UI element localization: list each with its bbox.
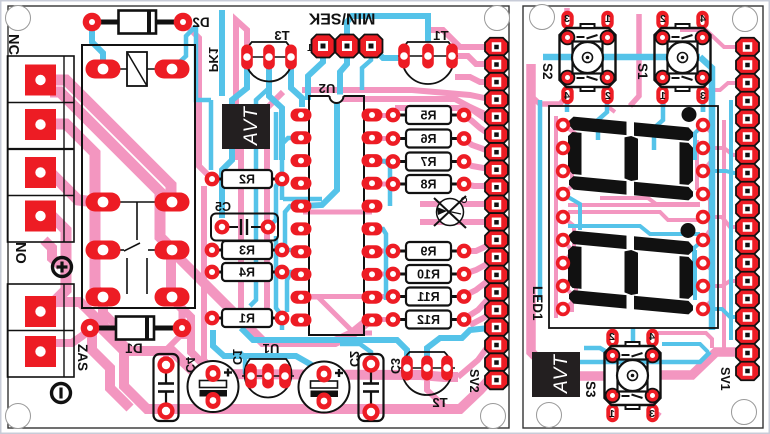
mounting hole	[732, 400, 757, 425]
display digit 1	[569, 117, 627, 136]
wire pink display web5	[563, 263, 576, 309]
wire pink C4 region	[166, 336, 190, 365]
wire pink sv1 stub top	[706, 83, 741, 90]
svg-text:AVT: AVT	[241, 106, 262, 146]
svg-text:R1: R1	[239, 312, 255, 326]
button S2	[561, 11, 573, 29]
wire blue channel vertical right	[729, 100, 733, 340]
mounting hole	[485, 6, 510, 31]
wire pink R10 to header	[464, 263, 489, 274]
svg-text:1: 1	[660, 90, 666, 102]
wire pink display left pads web2	[563, 148, 572, 194]
svg-text:R10: R10	[417, 268, 440, 282]
header SV2 pin 12	[485, 231, 508, 250]
svg-text:1: 1	[605, 13, 611, 25]
wire pink terminal2 to relay left col	[50, 124, 103, 297]
decimal point 2	[681, 223, 696, 238]
svg-text:C1: C1	[230, 349, 244, 365]
IC U2 pad right 15	[362, 222, 383, 235]
wire blue S1 right down	[701, 96, 706, 112]
wire blue right channel stub2	[703, 309, 741, 317]
wire pink S3 bottom stub	[652, 396, 660, 416]
wire pink under logo vertical B	[233, 60, 239, 160]
wire blue S2 bottom right down	[598, 96, 607, 140]
IC U2 pad right 18	[362, 154, 383, 167]
header SV2 pin 2	[485, 55, 508, 74]
wire blue through U2 from notch	[303, 102, 337, 206]
svg-text:D1: D1	[125, 341, 143, 356]
header SV2 pin 18	[485, 336, 508, 355]
svg-text:4: 4	[700, 13, 706, 25]
wire pink right channel vertical	[722, 120, 726, 356]
mounting hole	[733, 7, 758, 32]
wire blue display left web	[563, 194, 580, 230]
wire pink S1 to display	[660, 96, 666, 106]
wire pink below display	[658, 333, 712, 348]
header SV1 pin 8	[736, 164, 759, 183]
wire pink plus pad join	[61, 261, 66, 270]
svg-text:PK1: PK1	[206, 47, 221, 72]
IC U2 pad left 9	[291, 291, 312, 304]
logo AVT right board	[532, 352, 580, 397]
capacitor C4	[154, 354, 179, 421]
wire blue C5 to R2	[268, 179, 282, 227]
header SV2 pin 4	[485, 90, 508, 109]
wire pink header low2	[458, 345, 489, 377]
wire blue R3 to U2	[282, 250, 301, 252]
header SV1 pin 7	[736, 146, 759, 165]
wire pink S3 right to SV1	[661, 352, 741, 375]
svg-text:R5: R5	[420, 109, 436, 123]
relay coil symbol	[103, 68, 127, 70]
relay pad coil left	[86, 60, 121, 79]
wire blue display web r2	[694, 240, 703, 280]
resistor R2	[212, 178, 222, 181]
wire pink top right T1	[452, 56, 489, 64]
svg-text:4: 4	[649, 331, 655, 343]
wire blue U2 right stub1	[372, 161, 390, 206]
display pad left 8	[556, 279, 570, 293]
wire pink display left pads web1	[563, 125, 576, 171]
wire pink U2 to R6	[372, 136, 393, 141]
svg-text:R7: R7	[420, 155, 436, 169]
relay pad coil right	[155, 60, 190, 79]
wire pink R11 to header	[464, 280, 489, 296]
svg-text:R12: R12	[417, 313, 440, 327]
IC U2 pad left 10	[291, 314, 312, 327]
resistor R11	[393, 295, 406, 298]
logo AVT left board	[222, 104, 270, 149]
header SV1 pin 11	[736, 218, 759, 237]
wire pink relay right pads vertical	[166, 252, 176, 295]
IC U2 pad right 19	[362, 131, 383, 144]
wire blue channel left of U2	[276, 236, 282, 330]
svg-text:2: 2	[660, 13, 666, 25]
wire blue gap band	[568, 226, 700, 234]
display pad right 9	[696, 302, 710, 316]
wire pink R5 to header	[464, 115, 489, 134]
plus symbol	[53, 258, 72, 277]
IC U2 body	[309, 96, 364, 335]
terminal pad NO-2	[25, 201, 56, 232]
header SV2 pin 7	[485, 143, 508, 162]
wire pink terminal4 down left	[52, 216, 66, 304]
wire blue T2 left up long	[241, 328, 407, 368]
button S1	[656, 11, 668, 29]
resistor R3	[212, 249, 222, 252]
wire pink D1 pad right up	[171, 299, 182, 328]
display pad right 7	[696, 256, 710, 270]
wire pink channel vertical long	[204, 186, 213, 369]
svg-text:C3: C3	[388, 358, 402, 374]
wire pink relay nc down join	[103, 297, 118, 327]
wire pink top right corner	[425, 30, 489, 47]
wire pink relay contact to U2 pin	[171, 250, 368, 342]
header SV1 pin 1	[736, 38, 759, 57]
board outline right PCB	[523, 6, 763, 428]
wire pink top right corner	[680, 30, 741, 47]
display pad right 8	[696, 279, 710, 293]
wire pink stub sv1 c	[703, 281, 741, 286]
wire pink through U2 row11	[303, 294, 372, 299]
mounting hole	[6, 404, 31, 429]
diode D1	[90, 326, 182, 331]
wire blue T3 right down	[291, 68, 302, 107]
header SV1 pin 10	[736, 200, 759, 219]
header SV2 pin 10	[485, 196, 508, 215]
IC U2 pad right 17	[362, 177, 383, 190]
header SV1 pin 16	[736, 308, 759, 327]
wire blue R4 row	[282, 272, 301, 274]
header SV2 pin 1	[485, 38, 508, 57]
header SV2 pin 13	[485, 248, 508, 266]
capacitor C3	[359, 354, 384, 421]
wire blue jp1 pad1 down	[308, 46, 323, 100]
transistor T2 body	[402, 352, 452, 395]
wire pink display web6	[563, 286, 572, 312]
wire pink digits gap band2	[568, 212, 700, 220]
display pad left 1	[556, 118, 570, 132]
terminal pad ZAS-2	[25, 336, 56, 367]
wire blue channel x276	[274, 112, 279, 160]
relay PK1 outline	[82, 45, 195, 308]
wire pink C1 C2 bottom	[210, 400, 216, 409]
IC U2 pad right 11	[362, 314, 383, 327]
wire pink display inner vertical	[554, 116, 558, 318]
wire pink NC terminal diag A	[50, 80, 171, 199]
wire pink through U2 mid	[303, 210, 372, 215]
mounting hole	[530, 5, 555, 30]
display pad left 7	[556, 256, 570, 270]
wire pink relay rowB left spur	[95, 242, 103, 250]
relay pad nc left	[86, 288, 121, 307]
display pad right 4	[696, 187, 710, 201]
wire pink header mid2	[420, 219, 489, 225]
wire pink mid horizontals to header1	[455, 77, 489, 82]
resistor R5	[393, 114, 406, 117]
header SV1 pin 15	[736, 290, 759, 309]
capacitor C2 electrolytic	[299, 362, 350, 413]
header SV1 pin 12	[736, 236, 759, 255]
wire pink ZAS2 to D1	[50, 330, 90, 343]
IC U2 pad left 7	[291, 245, 312, 258]
header SV1 pin 9	[736, 182, 759, 201]
wire pink display left pads web4	[563, 240, 570, 286]
svg-text:SV1: SV1	[718, 367, 732, 391]
wire blue display web r1	[695, 125, 703, 160]
svg-text:NC: NC	[5, 34, 21, 55]
wire pink R8 to header	[464, 184, 489, 186]
wire pink bottom bundle to SV2	[400, 380, 489, 409]
header SV2 pin 20	[485, 371, 508, 390]
header SV1 pin 5	[736, 110, 759, 129]
wire blue drop S2a	[565, 96, 570, 112]
wire blue U2 left stub2	[285, 206, 301, 250]
wire pink T3 up	[236, 20, 247, 60]
wire blue channel right of relay	[196, 26, 211, 100]
wire pink U2 to R8	[372, 182, 393, 187]
header SV2 pin 19	[485, 353, 508, 372]
wire pink U2 to R5	[372, 113, 393, 118]
wire blue below display diag	[662, 344, 708, 352]
relay pad no left	[86, 241, 121, 260]
svg-text:3: 3	[700, 90, 706, 102]
wire pink ZAS terminal to bottom bundle	[50, 302, 400, 409]
display digit 2	[569, 231, 627, 250]
wire pink mid horizontals to header4	[395, 108, 487, 120]
wire pink S2 lower left diag	[531, 96, 567, 104]
terminal pad NC-2	[25, 109, 56, 140]
wire blue bottom left of U1	[240, 352, 245, 374]
svg-text:T2: T2	[432, 395, 447, 410]
wire pink R12 to header	[464, 298, 489, 319]
wire blue T2 mid	[427, 328, 489, 368]
resistor R9	[393, 250, 406, 253]
wire blue left channel vertical	[538, 100, 543, 300]
header JP1 pin 3	[360, 35, 383, 58]
wire pink U2 to R12	[372, 317, 393, 322]
display pad left 6	[556, 233, 570, 247]
IC U2 pad right 13	[362, 268, 383, 281]
svg-text:U1: U1	[263, 341, 280, 356]
wire pink R9 to header	[464, 245, 489, 251]
mounting hole	[6, 6, 31, 31]
decimal point 1	[682, 107, 697, 122]
wire blue drop S1a	[701, 96, 706, 112]
wire pink U2 to R10	[372, 272, 393, 277]
wire pink display right web1	[703, 125, 712, 171]
svg-text:S1: S1	[635, 63, 650, 80]
wire blue D2 left pad to relay coil	[92, 22, 103, 66]
svg-text:ZAS: ZAS	[75, 344, 90, 371]
wire blue jp1 pad3 to T1	[371, 46, 404, 58]
wire pink AVT to S3	[542, 363, 604, 376]
wire blue bottom horizontal	[580, 352, 710, 362]
svg-text:U2: U2	[319, 81, 336, 96]
relay pad com left	[86, 193, 121, 212]
mounting hole	[481, 404, 506, 429]
svg-text:2: 2	[605, 90, 611, 102]
board outline left PCB	[8, 6, 509, 428]
header SV2 pin 17	[485, 318, 508, 337]
wire pink header low1	[470, 315, 489, 325]
wire pink C2 bottom	[321, 400, 327, 409]
wire blue right inner web	[693, 250, 697, 300]
wire blue right channel stub1	[703, 171, 741, 173]
wire blue buttons row horizontal	[543, 54, 700, 61]
regulator U1 body	[244, 359, 291, 398]
wire pink terminal3 to relay com	[50, 172, 103, 202]
IC U2 pad left 8	[291, 268, 312, 281]
display pad right 1	[696, 118, 710, 132]
wire blue into U2 left	[283, 197, 322, 202]
header SV1 pin 4	[736, 92, 759, 111]
svg-text:R2: R2	[239, 173, 255, 187]
IC U2 pad right 14	[362, 245, 383, 258]
wire blue C1 top	[213, 330, 324, 373]
resistor R4	[212, 271, 222, 274]
svg-text:T1: T1	[433, 28, 448, 43]
IC U2 pad right 20	[362, 109, 383, 122]
wire pink stub sv1 b	[703, 217, 741, 227]
svg-text:3: 3	[649, 408, 655, 420]
wire pink left edge vertical	[531, 64, 542, 363]
header SV2 pin 6	[485, 125, 508, 143]
header SV2 pin 11	[485, 213, 508, 232]
wire pink mid bundle B	[103, 297, 458, 377]
svg-text:2: 2	[609, 331, 615, 343]
wire pink D2 pad down channel	[183, 22, 212, 179]
wire pink stub sv1 a	[703, 148, 741, 155]
svg-text:S3: S3	[583, 381, 598, 398]
header SV1 pin 13	[736, 254, 759, 273]
header SV2 pin 8	[485, 160, 508, 179]
wire pink mid horizontals to header3	[340, 99, 489, 116]
svg-text:AVT: AVT	[551, 354, 572, 394]
svg-text:R4: R4	[239, 266, 255, 280]
wire pink R7 to header	[464, 162, 489, 169]
wire pink R6 to header	[464, 139, 489, 151]
IC U2 pad left 3	[291, 154, 312, 167]
terminal pad ZAS-1	[25, 296, 56, 327]
svg-text:S2: S2	[540, 63, 555, 80]
svg-text:1: 1	[609, 408, 615, 420]
display pad left 4	[556, 187, 570, 201]
wire pink S2 top pads	[564, 8, 570, 14]
wire pink U2 to R9	[372, 249, 393, 254]
resistor R7	[393, 160, 406, 163]
header SV1 pin 17	[736, 326, 759, 345]
header SV1 pin 6	[736, 128, 759, 147]
svg-text:MIN/SEK: MIN/SEK	[308, 10, 375, 27]
wire blue min sek aux	[362, 46, 371, 90]
resistor R1	[212, 317, 222, 320]
header SV2 pin 5	[485, 108, 508, 127]
svg-text:4: 4	[564, 90, 570, 102]
wire blue relay coil right up	[172, 26, 196, 69]
wire pink display right web3	[703, 263, 712, 309]
relay pad no right	[155, 241, 190, 260]
header SV2 pin 9	[485, 178, 508, 197]
header JP1 pin 2	[336, 35, 359, 58]
relay contact symbol	[116, 201, 158, 203]
resistor R6	[393, 137, 406, 140]
relay pad com right	[155, 193, 190, 212]
diode D2	[92, 20, 183, 25]
wire blue T3 center down to U2	[269, 68, 282, 160]
wire blue top long horiz	[347, 16, 428, 46]
wire blue U2 right stub2	[372, 229, 386, 300]
wire blue top mid down	[219, 10, 225, 96]
header SV1 pin 18	[736, 344, 759, 363]
wire blue U2 left pads stubs	[282, 138, 301, 200]
relay pad nc right	[155, 288, 190, 307]
svg-text:R8: R8	[420, 178, 436, 192]
svg-text:C5: C5	[215, 200, 231, 214]
wire pink channel x267	[267, 92, 283, 312]
IC U2 pad left 1	[291, 109, 312, 122]
wire pink right inner web	[695, 140, 699, 190]
svg-text:T3: T3	[274, 28, 289, 43]
header SV1 pin 14	[736, 272, 759, 291]
crossed circle symbol	[437, 199, 464, 226]
wire pink channel x241	[238, 104, 244, 318]
header SV2 pin 3	[485, 73, 508, 92]
wire blue channel x256	[250, 88, 269, 306]
header SV2 pin 14	[485, 266, 508, 285]
wire blue S3 top to display	[631, 328, 636, 347]
transistor T1 body	[402, 42, 454, 84]
wire pink bottom right diag	[427, 368, 460, 409]
wire pink D1 pad down diagonal	[92, 334, 130, 408]
wire blue channel x211	[209, 100, 214, 170]
svg-text:LED1: LED1	[530, 286, 545, 321]
header SV1 pin 3	[736, 74, 759, 93]
svg-text:1: 1	[307, 43, 313, 54]
transistor T3 body	[245, 42, 292, 82]
IC U2 pad right 12	[362, 291, 383, 304]
wire pink NO to plus	[44, 240, 61, 266]
wire pink header mid1	[420, 201, 489, 207]
display pad left 2	[556, 141, 570, 155]
display pad left 3	[556, 164, 570, 178]
svg-text:R6: R6	[420, 132, 436, 146]
wire pink digits gap band1	[568, 203, 700, 207]
svg-text:R3: R3	[239, 244, 255, 258]
display pad right 5	[696, 210, 710, 224]
wire pink display right web2	[703, 194, 710, 240]
svg-text:NO: NO	[12, 242, 28, 264]
wire blue jp1 pad2 down	[340, 46, 347, 97]
svg-text:R9: R9	[420, 245, 436, 259]
IC U2 pad left 6	[291, 222, 312, 235]
svg-text:SV2: SV2	[467, 369, 481, 393]
wire pink digits gap band3	[600, 198, 700, 204]
wire blue T3 left pad down	[222, 68, 247, 218]
wire pink between buttons vertical	[630, 14, 639, 106]
mounting hole	[537, 403, 562, 428]
minus symbol	[52, 384, 71, 403]
wire pink through U2 diag	[303, 297, 372, 333]
IC U2 pad left 2	[291, 131, 312, 144]
terminal pad NO-1	[25, 157, 56, 188]
resistor R8	[393, 183, 406, 186]
display pad right 2	[696, 141, 710, 155]
terminal pad NC-1	[25, 65, 56, 96]
button S3	[606, 329, 618, 347]
wire blue C3 top to left	[340, 344, 371, 364]
display LED1 outline	[549, 106, 718, 328]
